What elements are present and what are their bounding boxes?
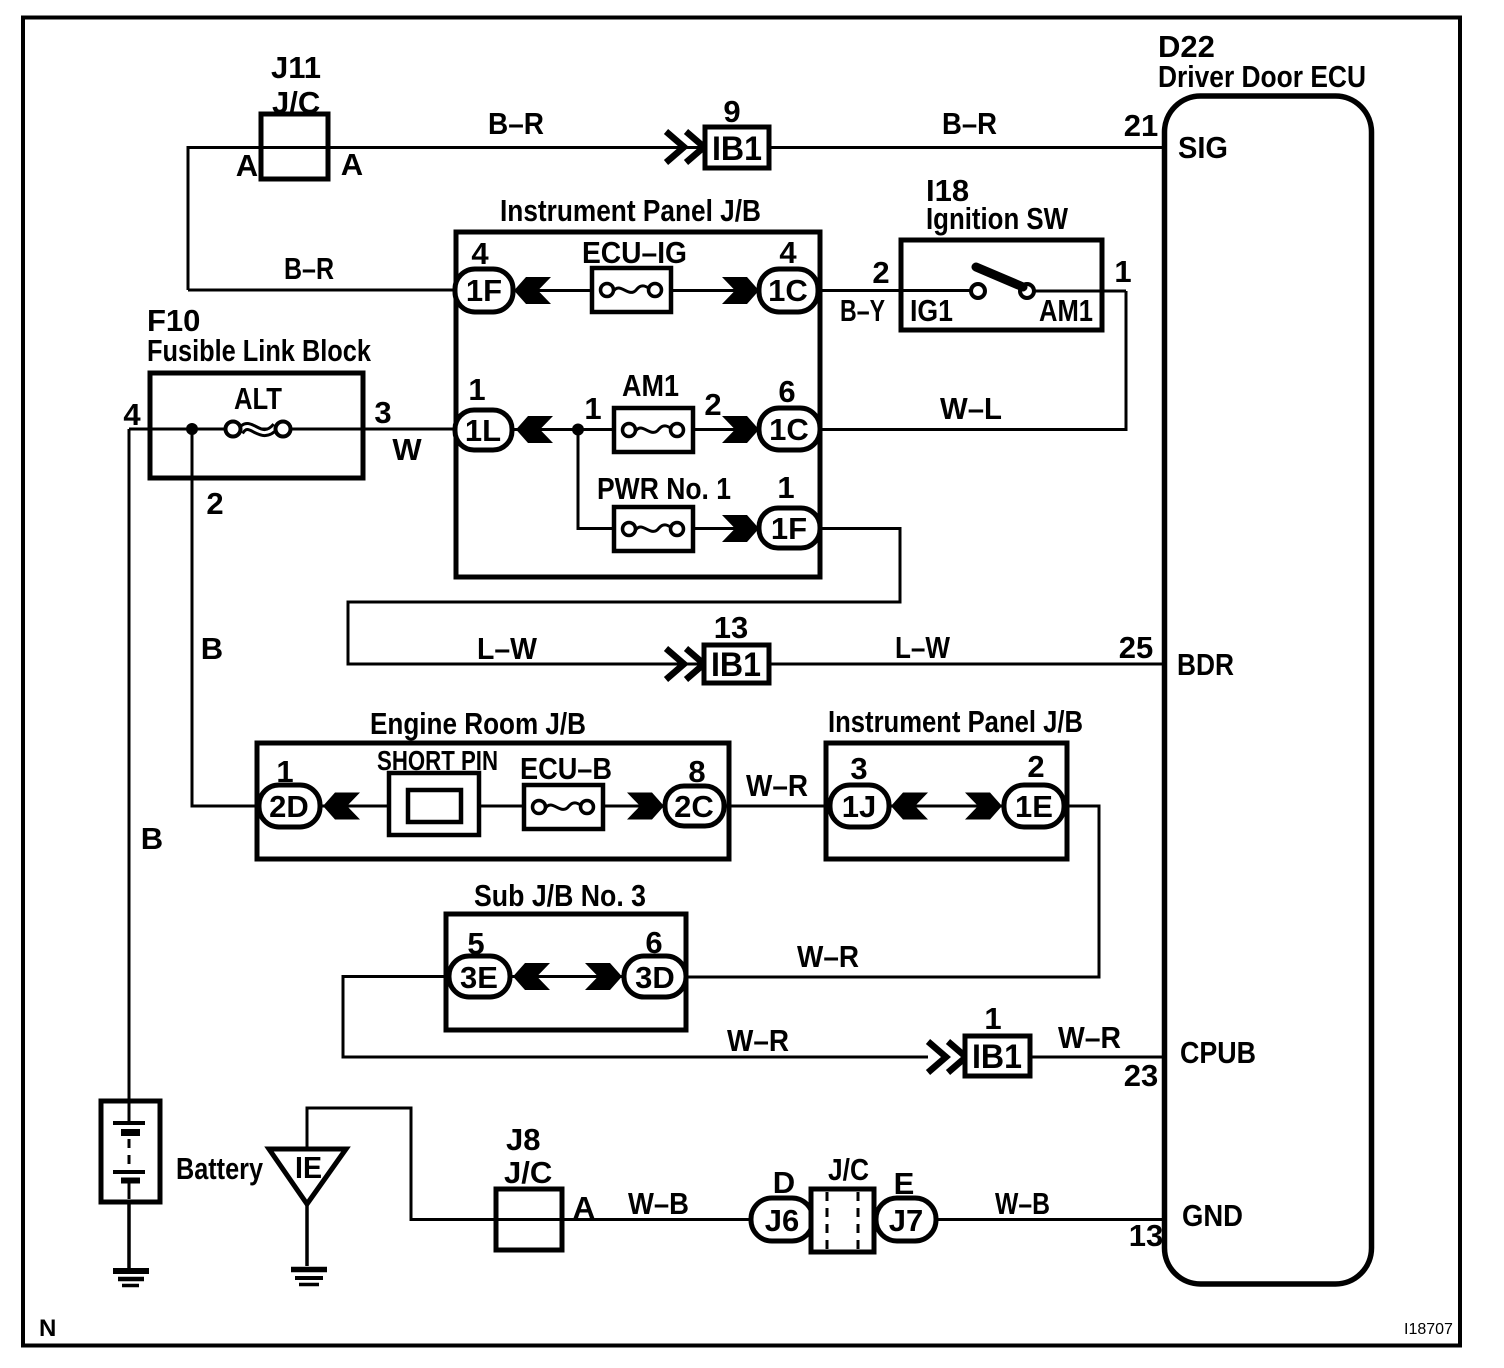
svg-text:Battery: Battery (176, 1151, 264, 1186)
svg-text:ECU–B: ECU–B (520, 751, 612, 786)
svg-text:Driver Door ECU: Driver Door ECU (1158, 59, 1366, 94)
wire battery to ground (127, 1202, 131, 1268)
svg-text:W–L: W–L (940, 391, 1002, 426)
svg-text:L–W: L–W (895, 630, 951, 665)
ground triangle IE (269, 1149, 346, 1204)
svg-text:W–R: W–R (746, 768, 808, 803)
svg-text:J11: J11 (271, 50, 321, 85)
wire IE to ground (305, 1204, 309, 1266)
svg-text:A: A (236, 148, 258, 183)
wire row Engine Room (320, 805, 665, 808)
svg-text:8: 8 (688, 754, 705, 789)
svg-text:A: A (341, 147, 363, 182)
svg-text:J/C: J/C (504, 1155, 552, 1190)
switch contact AM1 (1020, 284, 1034, 298)
connector 1F row1 (455, 269, 513, 312)
arrow right IPJB2 (965, 793, 1002, 820)
svg-text:3: 3 (850, 751, 867, 786)
arrow left Engine Room (323, 793, 360, 820)
svg-text:W–R: W–R (727, 1023, 789, 1058)
connector 1C row1 (759, 269, 818, 312)
fuse ECU-B (524, 785, 603, 829)
svg-text:AM1: AM1 (1039, 293, 1093, 328)
svg-text:1J: 1J (842, 789, 876, 824)
ignition switch I18 box (901, 240, 1102, 330)
wire B-Y from 1C to ignition (820, 289, 971, 292)
wire from AM1 contact out of switch (1034, 290, 1126, 293)
svg-text:IE: IE (295, 1150, 322, 1185)
svg-text:1: 1 (777, 470, 794, 505)
svg-text:I18707: I18707 (1404, 1321, 1453, 1338)
svg-text:1C: 1C (768, 273, 808, 308)
short pin (389, 773, 479, 835)
svg-text:1: 1 (584, 391, 601, 426)
svg-text:SHORT PIN: SHORT PIN (377, 745, 498, 776)
arrow left IPJB2 (891, 793, 928, 820)
junction-connector J/C between J6 and J7 (811, 1189, 874, 1252)
svg-text:J/C: J/C (272, 85, 320, 120)
wire row1 inside J/B (513, 289, 759, 292)
wire L-W from IB1 to BDR (769, 663, 1165, 666)
svg-text:W–B: W–B (995, 1186, 1050, 1221)
svg-text:Engine Room J/B: Engine Room J/B (370, 706, 586, 741)
connector 3D (624, 956, 686, 997)
wire from 3E left down to CPUB row (343, 977, 928, 1058)
svg-text:Sub J/B No. 3: Sub J/B No. 3 (474, 878, 646, 913)
ground symbol IE (291, 1270, 327, 1285)
connector 3E (449, 956, 510, 997)
svg-text:4: 4 (779, 235, 797, 270)
svg-text:23: 23 (1124, 1058, 1158, 1093)
fuse PWR No. 1 (614, 507, 693, 551)
wire from 1F row3 loop to BDR row (348, 529, 900, 665)
svg-text:W–R: W–R (797, 939, 859, 974)
svg-text:GND: GND (1182, 1198, 1243, 1233)
svg-text:4: 4 (123, 397, 141, 432)
wire W-R from 2C to 1J (724, 805, 830, 808)
svg-text:2: 2 (206, 486, 223, 521)
svg-text:J8: J8 (506, 1122, 540, 1157)
switch lever (976, 267, 1023, 287)
arrow right Engine Room (627, 793, 664, 820)
arrow right row3 (722, 515, 759, 542)
connector J6 (751, 1198, 813, 1241)
svg-text:6: 6 (778, 374, 795, 409)
connector 2C (665, 786, 724, 826)
Engine Room J/B box (257, 743, 729, 859)
svg-text:N: N (39, 1315, 56, 1342)
svg-text:1F: 1F (466, 273, 502, 308)
battery internals (113, 1103, 145, 1199)
chevron arrows into IB1 low (928, 1042, 966, 1073)
svg-text:PWR No. 1: PWR No. 1 (597, 471, 731, 506)
arrow left row1 (514, 277, 551, 304)
svg-text:1: 1 (984, 1001, 1001, 1036)
svg-text:1F: 1F (771, 511, 807, 546)
connector IB1 low (965, 1036, 1030, 1076)
ECU D22 Driver Door ECU block (1165, 96, 1372, 1284)
connector IB1 top (705, 127, 769, 168)
connector 1F row3 (759, 508, 820, 548)
arrow right row1 (722, 277, 759, 304)
svg-text:L–W: L–W (477, 631, 538, 666)
svg-text:ECU–IG: ECU–IG (582, 235, 687, 270)
junction-connector J8 J/C (496, 1189, 562, 1250)
svg-text:1: 1 (468, 372, 485, 407)
svg-text:D: D (773, 1165, 795, 1200)
svg-text:13: 13 (714, 610, 748, 645)
svg-text:2D: 2D (269, 789, 309, 824)
wire junction down to PWR row (578, 430, 614, 529)
ground symbol battery (113, 1271, 149, 1286)
svg-text:5: 5 (467, 926, 484, 961)
switch contact IG1 (971, 284, 985, 298)
wire B-R top from J11 to IB1 (188, 148, 705, 291)
svg-text:3: 3 (374, 395, 391, 430)
svg-text:3E: 3E (460, 960, 498, 995)
svg-text:W: W (392, 432, 422, 467)
svg-text:6: 6 (645, 925, 662, 960)
svg-text:2: 2 (1027, 749, 1044, 784)
wire through fusible link (129, 428, 455, 431)
fuse ECU-IG (592, 268, 671, 312)
svg-text:21: 21 (1124, 108, 1158, 143)
svg-text:J6: J6 (765, 1203, 799, 1238)
svg-text:J7: J7 (889, 1203, 923, 1238)
svg-text:CPUB: CPUB (1180, 1035, 1256, 1070)
wire W-L down to 1C (820, 291, 1126, 430)
svg-text:3D: 3D (635, 960, 675, 995)
arrow right Sub (585, 963, 622, 990)
chevron arrows into IB1 top (666, 132, 704, 163)
connector 1E (1004, 785, 1064, 827)
svg-text:2C: 2C (674, 789, 714, 824)
connector 1J (830, 785, 889, 827)
svg-text:IB1: IB1 (711, 646, 761, 684)
junction-connector J11 J/C (261, 114, 328, 179)
fusible link ALT (226, 422, 291, 437)
svg-text:2: 2 (872, 255, 889, 290)
svg-text:4: 4 (471, 236, 489, 271)
connector 1L (455, 410, 512, 450)
arrow right row2 (722, 416, 759, 443)
svg-text:Fusible Link Block: Fusible Link Block (147, 333, 372, 368)
wire from IE triangle up and over to J8 (307, 1108, 1165, 1220)
F10 Fusible Link Block box (150, 373, 363, 478)
Instrument Panel J/B box 1 (456, 232, 820, 577)
svg-text:1C: 1C (769, 412, 809, 447)
svg-text:W–R: W–R (1058, 1020, 1121, 1055)
chevron arrows into IB1 mid (666, 649, 704, 680)
svg-text:1: 1 (276, 754, 293, 789)
arrow left Sub (513, 963, 550, 990)
wire B from ALT junction down to Engine Room J/B (192, 429, 259, 806)
Sub J/B No. 3 box (446, 914, 686, 1030)
svg-text:B: B (141, 821, 163, 856)
svg-text:IG1: IG1 (910, 293, 953, 328)
connector 1C row2 (759, 408, 820, 450)
svg-text:Instrument Panel J/B: Instrument Panel J/B (828, 704, 1083, 739)
svg-text:1E: 1E (1015, 789, 1053, 824)
svg-text:B–R: B–R (942, 106, 997, 141)
svg-text:25: 25 (1119, 630, 1153, 665)
wire row2 inside J/B (512, 428, 759, 431)
svg-text:ALT: ALT (234, 381, 282, 416)
connector J7 (876, 1198, 936, 1241)
svg-text:1: 1 (1114, 254, 1131, 289)
wire W-R from IB1 to CPUB (1030, 1056, 1165, 1059)
connector IB1 mid (704, 645, 769, 683)
svg-text:IB1: IB1 (972, 1038, 1022, 1076)
wire row IPJB2 (889, 805, 1004, 808)
svg-text:1L: 1L (465, 413, 501, 448)
junction node in F10 (186, 423, 198, 435)
svg-text:B: B (201, 631, 223, 666)
svg-text:W–B: W–B (628, 1186, 689, 1221)
wire from 1E down to Sub J/B (686, 806, 1099, 977)
svg-text:IB1: IB1 (712, 130, 762, 168)
wire B from F10 pin4 down to battery (128, 429, 131, 1101)
Instrument Panel J/B box 2 (826, 743, 1067, 859)
arrow left row2 (516, 416, 553, 443)
svg-text:SIG: SIG (1178, 130, 1228, 165)
battery box (101, 1101, 160, 1202)
wire row Sub J/B (510, 975, 624, 978)
wire PWR fuse to 1F (693, 527, 759, 530)
svg-text:A: A (573, 1190, 595, 1225)
svg-text:2: 2 (704, 387, 721, 422)
svg-text:Ignition SW: Ignition SW (926, 201, 1069, 236)
wire B-R lower to 1F (188, 289, 456, 292)
svg-text:J/C: J/C (828, 1152, 869, 1187)
junction node row2 (572, 424, 584, 436)
svg-text:13: 13 (1129, 1218, 1163, 1253)
connector 2D (259, 785, 320, 827)
fuse AM1 (614, 408, 693, 452)
svg-text:BDR: BDR (1177, 647, 1234, 682)
svg-text:AM1: AM1 (622, 368, 679, 403)
svg-text:9: 9 (723, 94, 740, 129)
svg-text:B–R: B–R (488, 106, 544, 141)
svg-text:B–Y: B–Y (840, 293, 885, 328)
wire B-R from IB1 to SIG (769, 146, 1165, 149)
svg-text:Instrument Panel J/B: Instrument Panel J/B (500, 193, 761, 228)
svg-text:B–R: B–R (284, 251, 334, 286)
